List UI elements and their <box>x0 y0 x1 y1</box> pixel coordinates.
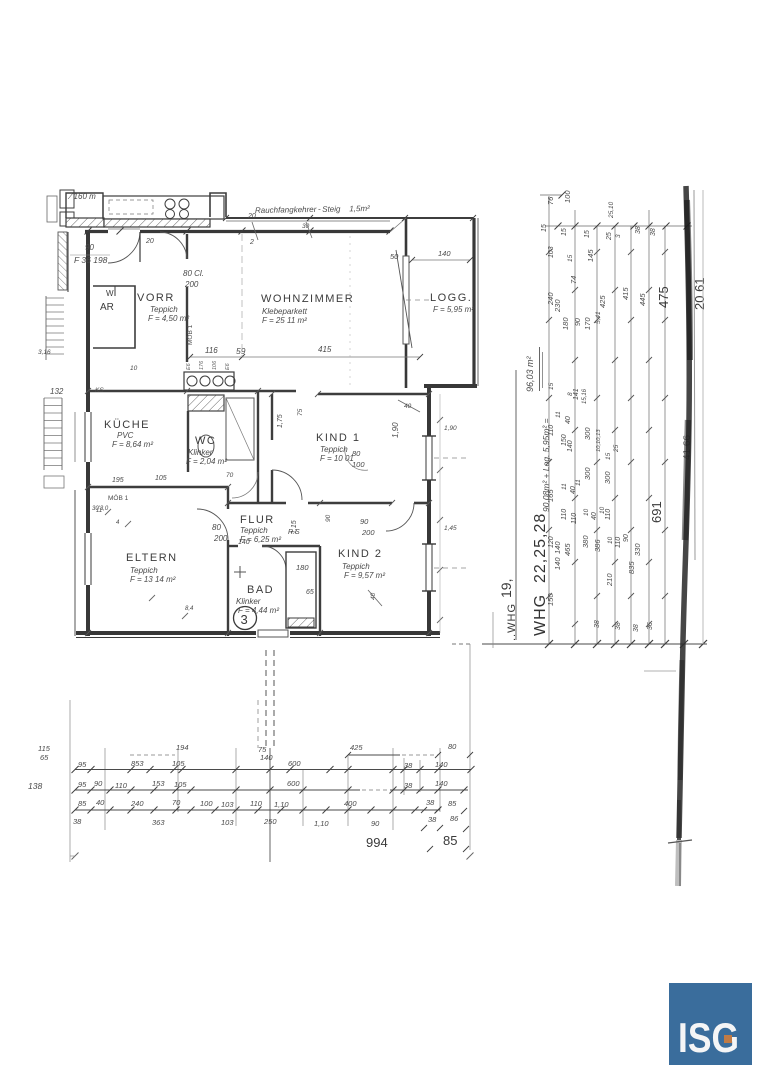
neighbour kitchen rect <box>103 196 224 219</box>
svg-text:1,10: 1,10 <box>274 800 289 809</box>
svg-text:90: 90 <box>85 243 94 252</box>
svg-text:110: 110 <box>571 513 578 524</box>
svg-text:15: 15 <box>567 254 574 262</box>
svg-text:F = 13 14 m²: F = 13 14 m² <box>130 575 176 584</box>
svg-text:F = 4,44 m²: F = 4,44 m² <box>238 606 279 615</box>
svg-text:20: 20 <box>145 238 154 245</box>
svg-text:40: 40 <box>565 416 572 424</box>
wall WC right <box>257 391 259 503</box>
svg-text:140: 140 <box>567 440 574 452</box>
svg-text:59: 59 <box>236 346 246 356</box>
stair core small rooms top far left <box>60 190 74 208</box>
svg-text:15: 15 <box>605 452 612 460</box>
svg-text:F = 2,04 m²: F = 2,04 m² <box>186 457 227 466</box>
svg-text:90,08m² + Log. 5,95m² =: 90,08m² + Log. 5,95m² = <box>541 418 551 512</box>
long top line y=218 <box>226 217 473 219</box>
svg-text:19,: 19, <box>498 579 514 598</box>
right exterior wall below LOGG <box>427 385 431 636</box>
hotplates 2x2 <box>165 199 175 209</box>
svg-text:15: 15 <box>584 230 591 238</box>
svg-text:1,90: 1,90 <box>391 422 400 438</box>
svg-text:1,90: 1,90 <box>444 425 457 432</box>
svg-text:KIND 1: KIND 1 <box>316 432 360 444</box>
svg-text:3: 3 <box>615 234 622 238</box>
svg-text:95: 95 <box>78 780 87 789</box>
svg-text:103: 103 <box>221 800 234 809</box>
svg-text:65: 65 <box>306 589 314 596</box>
svg-text:10: 10 <box>583 508 590 516</box>
svg-text:80: 80 <box>352 449 361 458</box>
circle 3 position sign <box>234 607 257 630</box>
svg-text:200: 200 <box>213 534 228 543</box>
svg-text:38: 38 <box>594 620 601 628</box>
svg-text:MÖB 1: MÖB 1 <box>108 494 129 502</box>
svg-text:475: 475 <box>656 286 671 308</box>
svg-text:116: 116 <box>205 346 218 355</box>
svg-text:F = 5,95 m²: F = 5,95 m² <box>433 305 474 314</box>
svg-text:85: 85 <box>443 833 457 848</box>
svg-text:90: 90 <box>94 779 103 788</box>
svg-text:425: 425 <box>350 743 363 752</box>
left stairwell marks <box>38 232 68 488</box>
svg-text:Klinker: Klinker <box>188 448 213 457</box>
svg-text:105: 105 <box>174 780 187 789</box>
svg-text:95: 95 <box>78 760 87 769</box>
svg-text:110: 110 <box>250 799 263 808</box>
step wall under LOGG <box>424 384 477 388</box>
svg-text:1,75: 1,75 <box>277 414 284 428</box>
svg-text:10: 10 <box>607 536 614 544</box>
wall above ELTERN <box>88 486 228 489</box>
svg-text:F 36 198: F 36 198 <box>74 255 108 265</box>
svg-text:5,41: 5,41 <box>595 311 602 324</box>
svg-text:115: 115 <box>38 744 51 753</box>
svg-text:138: 138 <box>28 781 42 791</box>
svg-text:140: 140 <box>435 760 448 769</box>
svg-text:85: 85 <box>78 799 87 808</box>
svg-text:75: 75 <box>297 408 304 416</box>
svg-text:WC: WC <box>195 435 216 447</box>
svg-text:1,15: 1,15 <box>291 520 298 534</box>
svg-text:140: 140 <box>553 557 562 570</box>
svg-text:465: 465 <box>563 543 572 556</box>
rotated totals 475 / 691 / 20 61 <box>649 277 707 523</box>
svg-text:38: 38 <box>635 226 642 234</box>
AR small room <box>93 286 135 348</box>
svg-text:176: 176 <box>199 360 205 370</box>
svg-text:20: 20 <box>247 213 256 220</box>
entrance door gap redrawn white + arc <box>108 228 140 236</box>
bottom door gap below BAD <box>256 628 290 639</box>
svg-text:25,10: 25,10 <box>608 201 615 219</box>
wall between VORR and WOHNZIMMER <box>186 234 188 259</box>
KIND2 door arc <box>386 503 414 531</box>
svg-text:200: 200 <box>184 280 199 289</box>
svg-text:11: 11 <box>555 411 562 418</box>
kitchen unit block <box>184 372 234 390</box>
svg-text:230: 230 <box>553 299 562 313</box>
svg-text:40: 40 <box>96 798 105 807</box>
svg-text:600: 600 <box>288 759 301 768</box>
svg-text:38: 38 <box>404 781 413 790</box>
in-plan dimension numbers and ticks <box>70 213 476 636</box>
svg-text:140: 140 <box>553 541 562 554</box>
right wall window KIND2 <box>424 544 434 591</box>
hatch wall band continuing right of left room <box>104 219 210 227</box>
shower room inner rect <box>286 552 316 628</box>
svg-text:110: 110 <box>115 781 128 790</box>
svg-text:65: 65 <box>40 753 49 762</box>
svg-text:11: 11 <box>575 479 582 486</box>
svg-text:300: 300 <box>603 471 612 484</box>
svg-text:74: 74 <box>569 276 578 284</box>
svg-text:835: 835 <box>627 561 636 574</box>
svg-text:40: 40 <box>591 512 598 520</box>
bottom wall <box>76 631 440 635</box>
svg-text:AR: AR <box>100 302 114 313</box>
svg-text:445: 445 <box>638 293 647 306</box>
svg-text:LOGG.: LOGG. <box>430 292 472 304</box>
svg-text:80: 80 <box>212 523 221 532</box>
wall above FLUR / below KIND1 <box>228 502 286 505</box>
LOGG right wall <box>472 218 475 386</box>
svg-text:80 Cl.: 80 Cl. <box>183 269 204 278</box>
svg-text:KÜCHE: KÜCHE <box>104 419 150 431</box>
svg-text:100: 100 <box>563 190 572 203</box>
svg-text:415: 415 <box>318 345 332 354</box>
svg-text:38: 38 <box>633 624 640 632</box>
window axis dashed marks right wall <box>406 300 470 568</box>
ELTERN door arc <box>197 509 228 540</box>
washbasin cross in BAD <box>234 571 246 573</box>
LOGG divider wall bottom piece <box>405 344 408 388</box>
svg-text:180: 180 <box>296 563 309 572</box>
WC shaft hatched <box>188 395 224 411</box>
svg-text:195: 195 <box>112 477 124 484</box>
svg-text:140: 140 <box>438 249 451 258</box>
svg-text:MÖB 1: MÖB 1 <box>186 324 194 345</box>
svg-text:10,10,13: 10,10,13 <box>596 429 602 452</box>
svg-text:90: 90 <box>575 318 582 326</box>
svg-text:210: 210 <box>605 573 614 587</box>
hatched wall band under terrace left room <box>66 218 104 227</box>
svg-text:W: W <box>106 289 114 298</box>
svg-text:KIND 2: KIND 2 <box>338 548 382 560</box>
svg-text:Klinker: Klinker <box>236 597 261 606</box>
svg-text:15: 15 <box>541 224 548 232</box>
svg-text:240: 240 <box>130 799 144 808</box>
svg-text:38: 38 <box>650 228 657 236</box>
svg-text:110: 110 <box>561 509 568 520</box>
svg-text:100: 100 <box>200 799 213 808</box>
right-side vertical dimension chains <box>452 190 707 648</box>
svg-text:8,4: 8,4 <box>185 606 194 612</box>
svg-text:40: 40 <box>570 486 577 494</box>
svg-text:3,16: 3,16 <box>38 349 51 356</box>
left exterior wall <box>86 231 90 636</box>
svg-text:∕ 160 m: ∕ 160 m <box>67 192 96 201</box>
svg-text:BAD: BAD <box>247 584 274 596</box>
svg-text:140: 140 <box>260 753 273 762</box>
svg-text:132: 132 <box>50 387 64 396</box>
svg-text:15,16: 15,16 <box>582 388 588 404</box>
svg-text:50: 50 <box>390 252 399 261</box>
WC fixtures <box>226 398 254 460</box>
outer sill lines left <box>74 490 76 636</box>
svg-text:600: 600 <box>287 779 300 788</box>
svg-text:Klebeparkett: Klebeparkett <box>262 307 308 316</box>
svg-text:110: 110 <box>615 537 622 548</box>
svg-text:Teppich: Teppich <box>150 305 178 314</box>
svg-text:145: 145 <box>586 249 595 262</box>
svg-text:F = 4,50 m²: F = 4,50 m² <box>148 314 189 323</box>
svg-text:70: 70 <box>226 472 234 479</box>
svg-text:F = 8,64 m²: F = 8,64 m² <box>112 440 153 449</box>
svg-text:250: 250 <box>263 817 277 826</box>
svg-text:15: 15 <box>548 382 555 390</box>
window band between <box>403 256 409 344</box>
svg-text:38: 38 <box>426 798 435 807</box>
svg-text:106: 106 <box>212 360 218 370</box>
svg-text:PVC: PVC <box>117 431 134 440</box>
BAD/KIND2 wall <box>319 546 321 636</box>
svg-text:105: 105 <box>172 759 185 768</box>
dashed inner counters <box>109 200 153 214</box>
left wall window (kueche) <box>84 412 93 462</box>
svg-text:F = 25 11 m²: F = 25 11 m² <box>262 316 307 325</box>
svg-text:ELTERN: ELTERN <box>126 552 178 564</box>
right wall window KIND1 <box>424 436 434 480</box>
svg-text:103: 103 <box>221 818 234 827</box>
svg-text:140: 140 <box>435 779 448 788</box>
svg-text:90: 90 <box>623 534 630 542</box>
svg-text:1,10: 1,10 <box>314 819 329 828</box>
KIND1 door arc <box>272 470 302 500</box>
svg-text:25: 25 <box>613 444 620 453</box>
horizontal wall under VORR/WOHNZIMMER <box>88 390 296 393</box>
WHG 19 / WHG 22,25,28 rotated titles <box>493 347 551 648</box>
svg-text:36: 36 <box>647 622 654 630</box>
LOGG divider wall top piece <box>405 218 408 256</box>
svg-text:853: 853 <box>131 759 144 768</box>
svg-text:FLUR: FLUR <box>240 514 275 526</box>
svg-text:194: 194 <box>176 743 189 752</box>
svg-text:WOHNZIMMER: WOHNZIMMER <box>261 293 354 305</box>
svg-text:11: 11 <box>561 483 568 490</box>
svg-text:300: 300 <box>583 467 592 480</box>
svg-text:VORR: VORR <box>137 292 175 304</box>
svg-text:Teppich: Teppich <box>320 445 348 454</box>
left wall window (eltern) <box>84 533 93 585</box>
svg-text:86: 86 <box>450 814 459 823</box>
svg-text:76: 76 <box>546 196 555 205</box>
svg-text:F = 9,57 m²: F = 9,57 m² <box>344 571 385 580</box>
svg-text:170: 170 <box>583 317 592 330</box>
svg-text:38: 38 <box>428 815 437 824</box>
svg-text:994: 994 <box>366 835 388 850</box>
KIND1 left wall <box>271 394 273 440</box>
svg-text:15: 15 <box>561 228 568 236</box>
svg-text:105: 105 <box>155 475 167 482</box>
svg-text:25: 25 <box>606 232 613 241</box>
svg-text:E6: E6 <box>186 362 192 370</box>
svg-text:30'3,0: 30'3,0 <box>92 506 109 512</box>
svg-text:80: 80 <box>448 742 457 751</box>
svg-text:10: 10 <box>130 365 138 372</box>
svg-text:Teppich: Teppich <box>240 526 268 535</box>
top wall of apartment <box>85 230 390 233</box>
svg-text:90: 90 <box>371 819 380 828</box>
svg-text:415: 415 <box>621 287 630 300</box>
chimney notch <box>210 193 226 217</box>
svg-text:E6: E6 <box>225 362 231 370</box>
svg-text:425: 425 <box>598 295 607 308</box>
svg-text:40: 40 <box>404 403 412 410</box>
svg-text:38: 38 <box>404 761 413 770</box>
heavy vertical scan fold line <box>644 186 703 886</box>
svg-text:110: 110 <box>605 509 612 520</box>
svg-text:Teppich: Teppich <box>342 562 370 571</box>
ELTERN right wall <box>227 487 229 509</box>
svg-text:KS: KS <box>95 387 104 394</box>
svg-text:153: 153 <box>152 779 165 788</box>
svg-text:38: 38 <box>73 817 82 826</box>
svg-text:300: 300 <box>583 427 592 440</box>
svg-text:140: 140 <box>238 539 250 546</box>
BAD door arc <box>262 546 286 570</box>
dashed section line below plan <box>258 650 274 862</box>
svg-text:691: 691 <box>649 501 664 523</box>
closet door arc VORR <box>160 232 187 259</box>
svg-text:85: 85 <box>448 799 457 808</box>
svg-text:90: 90 <box>360 517 369 526</box>
svg-text:380: 380 <box>581 535 590 548</box>
svg-text:96,03 m²: 96,03 m² <box>525 355 535 392</box>
terrace left room outline <box>66 193 103 218</box>
svg-text:Teppich: Teppich <box>130 566 158 575</box>
svg-text:400: 400 <box>344 799 357 808</box>
svg-text:1,45: 1,45 <box>444 525 457 532</box>
svg-text:70: 70 <box>172 798 181 807</box>
svg-text:141: 141 <box>573 388 580 400</box>
diagonal Gal.-Schiene line <box>396 250 412 348</box>
svg-text:330: 330 <box>633 543 642 556</box>
svg-text:WHG 22,25,28: WHG 22,25,28 <box>532 513 549 636</box>
svg-text:180: 180 <box>561 317 570 330</box>
svg-text:90: 90 <box>325 514 332 522</box>
svg-text:100: 100 <box>352 460 365 469</box>
BAD top wall <box>228 545 238 547</box>
bottom dimension chains <box>28 644 475 862</box>
svg-text:363: 363 <box>152 818 165 827</box>
svg-text:2: 2 <box>249 239 254 246</box>
svg-text:386: 386 <box>593 539 602 552</box>
svg-text:200: 200 <box>361 528 375 537</box>
